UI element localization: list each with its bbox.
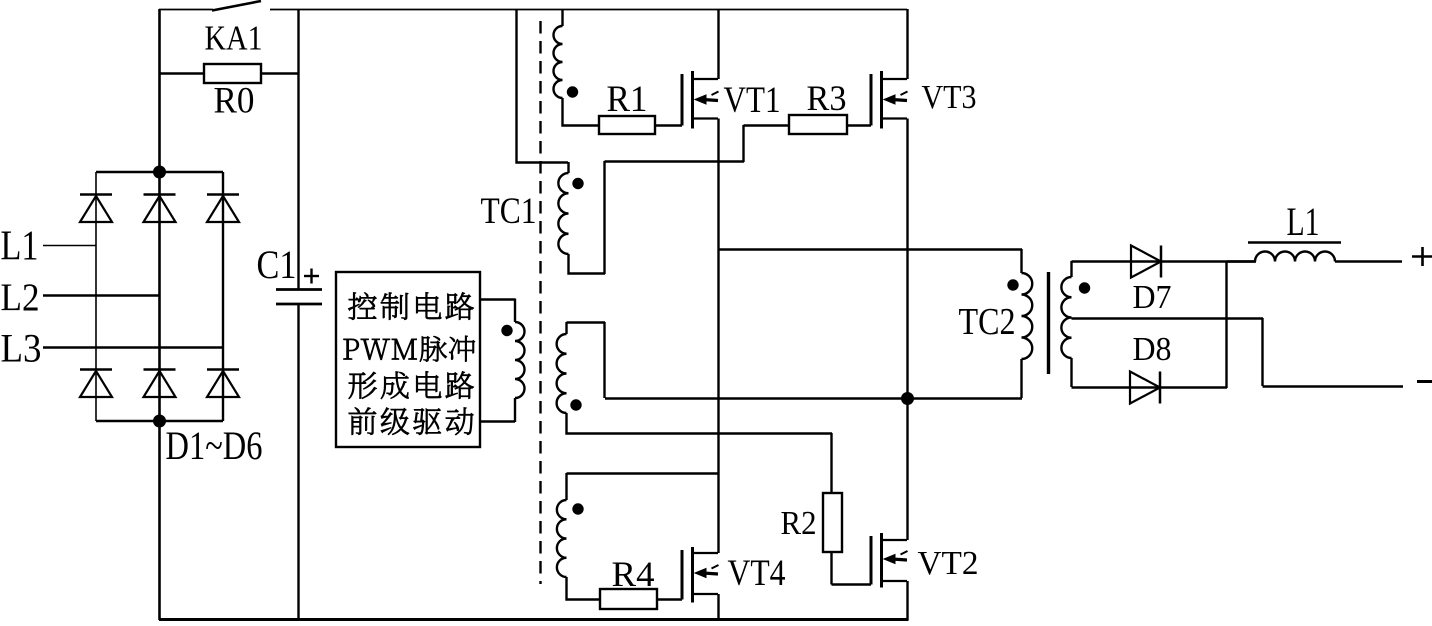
- control block text line2 PWM脉冲: [344, 339, 359, 360]
- svg-text:TC1: TC1: [481, 191, 537, 232]
- transistor VT1 (MOSFET): [681, 74, 684, 126]
- wire D7 to L1: [1227, 260, 1256, 262]
- resistor R3: [789, 115, 847, 134]
- wire right leg midsection: [906, 119, 908, 541]
- diode D7: [1131, 246, 1161, 278]
- node right leg midpoint junction: [901, 392, 914, 405]
- wire top rail: [270, 9, 907, 11]
- capacitor C1 top plate: [276, 288, 322, 291]
- wire R0 branch right: [261, 72, 299, 74]
- wire VT2 source to bottom rail: [906, 581, 908, 620]
- wire top rail left segment: [159, 9, 213, 11]
- wire bridge column 3: [222, 172, 224, 421]
- wire VT3 drain to top rail: [906, 9, 908, 79]
- svg-text:L3: L3: [1, 326, 42, 371]
- node bridge top junction: [153, 166, 166, 179]
- svg-text:L1: L1: [1287, 199, 1320, 244]
- node bridge bottom junction: [153, 415, 166, 428]
- node TC1 primary polarity dot: [501, 325, 512, 336]
- svg-text:VT3: VT3: [922, 79, 977, 116]
- svg-text:C1: C1: [257, 242, 297, 287]
- node winding4 polarity dot: [572, 503, 583, 514]
- transistor VT4 (MOSFET): [681, 550, 684, 600]
- wire bridge column 1: [95, 172, 97, 421]
- inductor L1 winding: [1255, 252, 1335, 262]
- wire left leg midpoint to TC2 primary: [719, 248, 1023, 250]
- wire D7-D8 cathode join vertical: [1225, 261, 1227, 388]
- svg-text:R1: R1: [607, 79, 648, 120]
- transformer TC2 primary winding: [1020, 249, 1022, 273]
- wire input L1 stub: [43, 245, 96, 247]
- svg-text:L2: L2: [1, 276, 40, 319]
- control block text line1 控制电路: [348, 292, 376, 319]
- wire R0 branch left: [159, 72, 204, 74]
- svg-text:VT4: VT4: [728, 553, 786, 594]
- svg-text:TC2: TC2: [959, 301, 1016, 343]
- transformer TC1 core (dashed): [539, 21, 541, 584]
- wire bridge top rail: [96, 171, 223, 173]
- transformer TC2 secondary winding: [1070, 261, 1072, 277]
- minus output terminal: [1417, 380, 1432, 383]
- node winding2 polarity dot: [572, 178, 583, 189]
- C1 polarity plus sign: [304, 275, 319, 277]
- control block box: [336, 272, 480, 447]
- resistor R2 (vertical): [823, 493, 842, 552]
- transistor VT2 (MOSFET): [870, 536, 873, 585]
- control block text line4 前级驱动: [349, 408, 376, 435]
- resistor R1: [599, 116, 655, 134]
- switch KA1 blade: [212, 1, 261, 11]
- diode D2 (upper, phase L2): [144, 193, 176, 196]
- transformer TC1 primary winding: [514, 299, 516, 323]
- transformer TC1 secondary winding 1: [561, 9, 563, 26]
- wire R4 to VT4 gate: [657, 598, 682, 600]
- wire C1 vertical rail upper: [297, 9, 299, 289]
- node TC2 primary polarity dot: [1007, 279, 1018, 290]
- wire D7 branch: [1072, 260, 1256, 262]
- svg-text:R4: R4: [612, 554, 655, 594]
- diode D5 (lower, phase L2): [144, 368, 176, 371]
- svg-text:R0: R0: [214, 81, 255, 122]
- transistor VT3 (MOSFET): [870, 74, 873, 126]
- control block text line3 形成电路: [349, 372, 377, 399]
- resistor R0: [204, 64, 261, 83]
- wire box to TC1 primary bottom: [480, 420, 515, 422]
- transformer TC1 secondary winding 2: [517, 9, 569, 163]
- plus output terminal: [1412, 255, 1432, 258]
- wire C1 vertical rail lower: [297, 304, 299, 620]
- transformer TC1 secondary winding 3: [567, 321, 606, 323]
- inductor L1 core bar: [1248, 241, 1341, 244]
- wire left vertical rail: [158, 9, 161, 620]
- node winding3 polarity dot: [570, 399, 581, 410]
- svg-text:R3: R3: [807, 78, 847, 118]
- transformer TC1 secondary winding 4: [567, 472, 719, 474]
- wire input L3 stub: [43, 346, 223, 348]
- wire bridge bottom rail: [96, 420, 223, 422]
- svg-text:D1~D6: D1~D6: [166, 423, 263, 468]
- svg-text:L1: L1: [1, 224, 39, 270]
- wire TC2 center tap: [1072, 317, 1264, 319]
- wire D8 branch: [1072, 386, 1228, 388]
- svg-text:D7: D7: [1133, 279, 1172, 316]
- wire R1 to VT1 gate: [655, 124, 682, 126]
- resistor R4: [600, 589, 657, 609]
- node TC2 secondary polarity dot: [1079, 282, 1090, 293]
- svg-text:KA1: KA1: [205, 20, 263, 58]
- svg-text:R2: R2: [781, 505, 817, 542]
- wire L1 to plus terminal: [1335, 260, 1402, 262]
- svg-text:VT2: VT2: [918, 545, 979, 582]
- svg-text:VT1: VT1: [724, 80, 781, 121]
- wire R2 to VT2 gate: [830, 552, 832, 585]
- svg-text:D8: D8: [1133, 331, 1172, 368]
- wire VT1 drain to top rail: [717, 9, 719, 79]
- diode D1 (upper, phase L1): [80, 193, 112, 196]
- wire VT4 source to bottom rail: [717, 594, 719, 620]
- diode D4 (lower, phase L1): [80, 368, 112, 371]
- wire input L2 stub: [43, 294, 159, 296]
- wire R3 to VT3 gate: [847, 124, 871, 126]
- transformer TC2 core bar: [1047, 272, 1050, 374]
- wire left leg midsection: [717, 119, 719, 554]
- diode D3 (upper, phase L3): [207, 193, 239, 196]
- diode D6 (lower, phase L3): [207, 368, 239, 371]
- node winding1 polarity dot: [567, 86, 578, 97]
- diode D8: [1130, 372, 1160, 404]
- capacitor C1 bottom plate: [276, 303, 322, 306]
- wire box to TC1 primary top: [480, 298, 515, 300]
- wire TC2 primary bottom / winding3 top rail: [605, 397, 1022, 399]
- wire bottom rail: [159, 618, 909, 621]
